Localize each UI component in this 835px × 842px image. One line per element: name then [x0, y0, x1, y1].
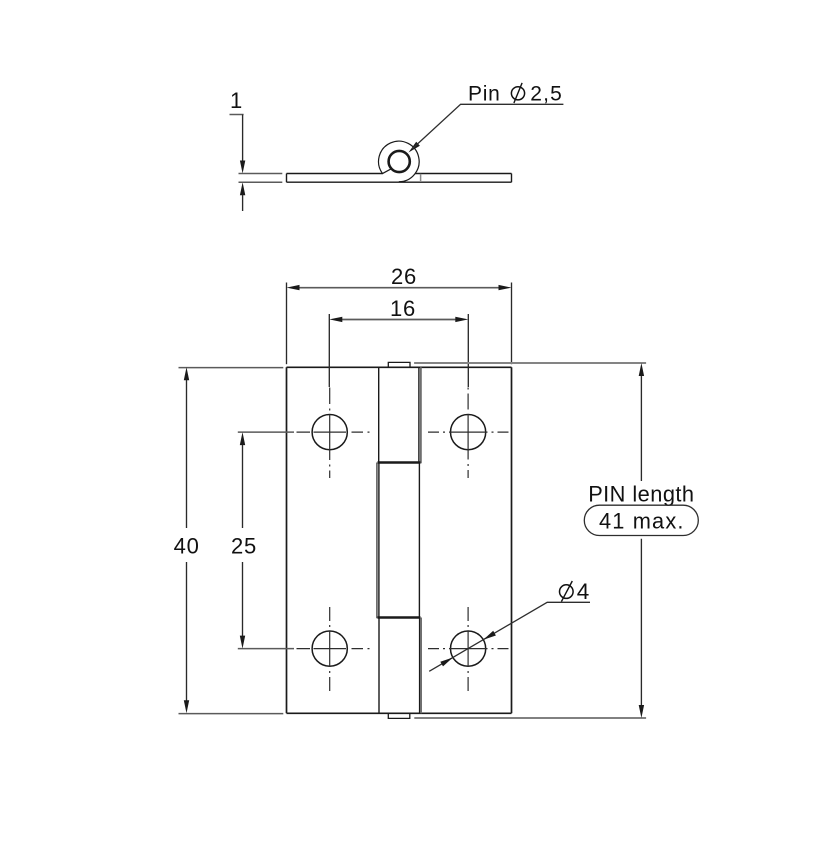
leaf profile outline — [287, 174, 512, 183]
pin length extension bottom (gray) — [414, 717, 646, 719]
dim 16 extension left — [328, 314, 330, 387]
hole bottom-right — [451, 631, 486, 666]
dim 16 arrow left — [329, 317, 342, 322]
centerline bottom-right hole horizontal — [428, 648, 509, 650]
dimension 1 leader line upper — [242, 115, 244, 162]
dim 26 arrow left — [287, 285, 300, 290]
dia 4 arrow upper (pointing down-left at hole edge) — [483, 631, 496, 640]
knuckle bottom segment — [379, 618, 420, 714]
centerline top-left hole vertical — [329, 388, 331, 479]
41 max stadium frame — [584, 505, 698, 535]
dia 4 text — [560, 585, 574, 599]
dim 40 line upper — [186, 380, 188, 528]
svg-text:26: 26 — [391, 264, 417, 289]
hole top-right — [451, 415, 486, 450]
pin length arrow down — [639, 705, 644, 718]
dimension 1 leader line lower — [242, 195, 244, 211]
hinge body outline — [287, 367, 512, 713]
extension line leaf bottom — [239, 181, 283, 183]
dim 25 arrow up — [240, 432, 245, 445]
centerline bottom-left hole vertical — [329, 607, 331, 691]
extension line leaf top — [239, 173, 283, 175]
arrow down to leaf top — [240, 161, 245, 174]
knuckle middle segment — [379, 463, 420, 618]
svg-text:1: 1 — [230, 88, 242, 113]
svg-text:25: 25 — [231, 533, 257, 558]
centerline bottom-left hole horizontal (right part) — [297, 648, 371, 650]
pin length dim line upper — [640, 376, 642, 481]
dim 26 line — [299, 287, 499, 289]
dim 40 arrow down — [184, 700, 189, 713]
knuckle bottom segment shadow line — [420, 618, 422, 714]
knuckle outer circle (rolled leaf) — [379, 141, 420, 182]
dim 25 line lower — [242, 562, 244, 636]
svg-text:40: 40 — [174, 533, 200, 558]
centerline top-right hole vertical — [467, 388, 469, 479]
pin tab top — [388, 362, 410, 367]
svg-text:41 max.: 41 max. — [599, 509, 685, 534]
dim 40 arrow up — [184, 367, 189, 380]
svg-text:PIN length: PIN length — [588, 482, 694, 507]
dim 16 line — [342, 319, 456, 321]
svg-text:Pin: Pin — [468, 82, 500, 105]
dim 25 extension top — [238, 431, 294, 433]
dim 40 extension bottom — [179, 713, 284, 715]
dim 25 extension bottom — [238, 648, 294, 650]
knuckle curl line — [382, 169, 391, 174]
dim 16 arrow right — [455, 317, 468, 322]
dim 16 extension right — [467, 314, 469, 387]
knuckle middle segment shadow line — [376, 463, 378, 619]
diameter symbol of Pin 2,5 — [511, 87, 524, 100]
pin length dim line lower — [640, 539, 642, 706]
dimension 1 top tick — [230, 114, 244, 116]
dia 4 leader line — [429, 602, 590, 671]
centerline top-right hole horizontal — [428, 431, 509, 433]
dim 26 extension left — [286, 283, 288, 365]
dim 40 line lower — [186, 562, 188, 701]
arrow up to leaf bottom — [240, 182, 245, 195]
pin length arrow up — [639, 363, 644, 376]
hole bottom-left — [312, 631, 347, 666]
dim 40 extension top — [179, 367, 284, 369]
leaf joint line — [420, 174, 422, 182]
svg-text:4: 4 — [577, 579, 590, 604]
knuckle top segment — [379, 367, 419, 462]
dim 25 line upper — [242, 444, 244, 528]
centerline bottom-right hole vertical — [467, 607, 469, 691]
pin length extension top (gray) — [414, 362, 646, 364]
dim 26 extension right — [511, 283, 513, 365]
svg-text:2,5: 2,5 — [530, 82, 563, 105]
centerline top-left hole horizontal (right part) — [297, 431, 371, 433]
dim 26 arrow right — [499, 285, 512, 290]
pin leader arrow — [409, 142, 420, 153]
pin circle — [389, 151, 410, 172]
svg-text:16: 16 — [390, 296, 416, 321]
knuckle joint upper — [378, 461, 421, 463]
knuckle joint lower — [378, 616, 421, 618]
pin tab bottom — [388, 713, 410, 718]
pin leader line — [412, 104, 563, 149]
knuckle top segment shadow line — [420, 367, 422, 463]
hole top-left — [312, 415, 347, 450]
dim 25 arrow down — [240, 636, 245, 649]
dia 4 arrow lower (pointing up-right at hole edge) — [440, 658, 453, 667]
